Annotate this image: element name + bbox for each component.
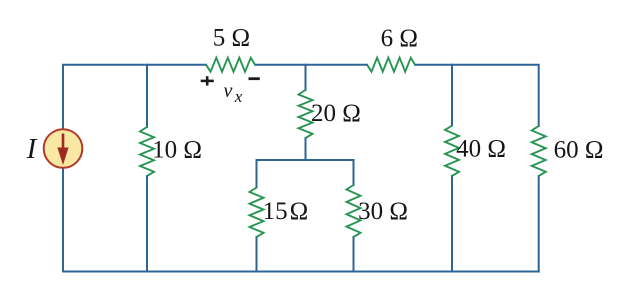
wire: 30-ohm branch lower [353, 237, 355, 272]
current source I: circle body [44, 129, 83, 168]
svg-text:10 Ω: 10 Ω [152, 136, 202, 163]
svg-text:30 Ω: 30 Ω [358, 198, 408, 225]
resistor R=15ohm [250, 188, 264, 238]
wire: 20-ohm branch lower [305, 138, 307, 160]
wire: 15-ohm branch upper [256, 160, 258, 188]
current source I: arrow head [57, 148, 68, 166]
wire: 30-ohm branch upper [353, 160, 355, 185]
wire: 20-ohm branch upper [305, 65, 307, 90]
wire: 40-ohm branch lower [451, 176, 453, 272]
wire: top rail right segment [415, 65, 539, 126]
wire: bottom rail [63, 271, 539, 273]
resistor R=5ohm [206, 58, 255, 72]
svg-text:20 Ω: 20 Ω [311, 100, 361, 127]
svg-text:x: x [234, 87, 243, 106]
wire: 10-ohm branch upper [146, 65, 148, 127]
resistor R=6ohm [367, 58, 415, 72]
svg-text:Ω: Ω [290, 198, 309, 225]
svg-text:40 Ω: 40 Ω [456, 135, 506, 162]
wire: 10-ohm branch lower [146, 176, 148, 272]
svg-text:60 Ω: 60 Ω [554, 137, 604, 164]
svg-text:15: 15 [263, 198, 288, 225]
label minus sign of vx [249, 77, 260, 80]
svg-text:5 Ω: 5 Ω [213, 25, 250, 52]
resistor R=40ohm [445, 126, 459, 177]
svg-text:I: I [26, 133, 38, 165]
svg-text:v: v [224, 80, 233, 102]
resistor R=60ohm [532, 126, 546, 176]
wire: top rail middle segment [255, 64, 367, 66]
resistor R=10ohm [140, 127, 154, 176]
wire: 40-ohm branch upper [451, 65, 453, 126]
wire: 60-ohm branch lower [538, 176, 540, 272]
wire: left branch below source [62, 168, 64, 272]
wire: top rail left segment [63, 65, 206, 168]
resistor R=20ohm [299, 90, 313, 138]
wire: 15-ohm branch lower [256, 237, 258, 272]
resistor R=30ohm [347, 185, 361, 237]
label plus sign of vx [201, 76, 214, 85]
svg-text:6 Ω: 6 Ω [381, 25, 418, 52]
current source I: arrow shaft [62, 134, 65, 151]
wire: sub-network top rail [257, 159, 354, 161]
